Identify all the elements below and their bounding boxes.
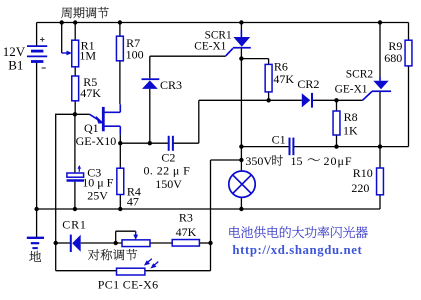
svg-text:GE-X1: GE-X1 [335,83,368,95]
resistor R6 47K [265,64,272,92]
svg-text:GE-X10: GE-X10 [76,134,117,148]
wire bottom loop horizontal [56,270,211,272]
resistor R10 220 [377,168,384,195]
svg-text:10 μ F: 10 μ F [82,176,113,190]
node C3 bottom / ground rail [73,207,77,211]
wire R7 top lead [119,23,121,37]
resistor R4 47 [117,168,124,194]
svg-text:350V: 350V [245,154,272,168]
label symmetry adjust [88,249,137,260]
node battery minus / ground rail [34,207,38,211]
wire battery negative lead [36,62,38,209]
svg-text:SCR2: SCR2 [346,69,374,81]
ground [27,238,44,248]
svg-text:C1: C1 [272,133,286,147]
wire R6 bottom lead [268,92,270,100]
wire CR3 bottom lead [149,89,151,143]
wire corner up to gate row [198,100,200,143]
wire CR3 top lead [149,56,151,78]
svg-text:220: 220 [351,181,369,195]
wire gate row to CR2 [199,99,302,101]
wire R4 top lead [119,143,121,168]
svg-text:20μF: 20μF [324,154,353,168]
svg-text:PC1 CE-X6: PC1 CE-X6 [98,277,159,291]
node R3 right / loop vertical [208,241,212,245]
svg-text:CR1: CR1 [62,217,86,231]
wire lamp node to R3 loop [211,159,242,161]
wire SCR1 cathode lead [240,48,242,58]
wire R4 bottom lead [119,195,121,210]
svg-text:B1: B1 [8,57,23,72]
node lamp bottom / ground rail [239,207,243,211]
wire SCR2 anode lead [379,23,381,78]
label ground [29,251,41,262]
wire ground rail [37,208,380,210]
svg-text:1M: 1M [79,49,96,63]
wire R1 top lead [74,23,76,41]
svg-text:47K: 47K [80,86,101,100]
battery plus sign [40,37,44,41]
node CR1 anode / R2 [114,241,118,245]
label period adjust [61,7,109,18]
node Q1 B1 / R4 / C2 [118,141,122,145]
node R7 top / top rail [118,20,122,24]
resistor R3 47K [172,240,199,247]
node SCR2 cathode / R10 top [378,144,382,148]
svg-text:1K: 1K [343,123,358,137]
wire SCR1 cathode to R6 top [241,58,268,60]
resistor R9 680 [405,40,412,66]
wire R10 top lead [379,147,381,168]
svg-text:47: 47 [127,195,139,209]
node R1 top / top rail [73,20,77,24]
resistor R2 (pot, symmetry adjust) [122,240,150,247]
wire SCR2 cathode lead [379,92,381,147]
wire C3 bottom lead [74,182,76,209]
wire R1 to R5 [74,67,76,76]
wire C1 row right [294,146,409,148]
svg-text:15: 15 [291,154,303,168]
wire Q1 B1 lead to node [119,135,121,144]
wire R2 wiper link [115,231,117,243]
resistor R5 47K [72,76,79,101]
wire SCR1 gate row [150,55,226,57]
node SCR1 anode / top rail [239,20,243,24]
node R8 bottom / C1 row [334,144,338,148]
node R1 wiper / top rail [60,20,64,24]
SCR2 GE-X1 [363,77,392,100]
battery B1 12V [27,46,47,61]
caption line 1 [229,226,367,238]
wire battery positive lead [36,23,38,46]
capacitor C1 350V 15-20uF [290,138,294,156]
wire SCR1 anode lead [240,23,242,31]
wire left loop vertical [55,114,57,271]
wire R5 bottom lead [74,101,76,115]
svg-text:C2: C2 [161,151,175,165]
PC1 light arrows [144,259,158,269]
wire R9 bottom lead (right border) [408,66,410,147]
capacitor C3 10uF 25V [67,165,85,181]
wire R8 top lead [336,100,338,111]
wire R10 bottom lead [379,195,381,209]
resistor photocell PC1 CE-X6 [117,268,145,275]
node R6 bottom / gate row [266,98,270,102]
wire R7 bottom lead to Q1 B2 [119,61,121,104]
svg-text:CE-X1: CE-X1 [194,41,226,53]
wire R9 top lead [408,23,410,41]
node lamp / R3 loop [239,158,243,162]
wire ground stub [36,209,38,237]
node SCR2 anode / top rail [378,20,382,24]
node UJT emitter junction [73,112,77,116]
node CR3 anode / C2 row [148,141,152,145]
wire UJT emitter node horizontal [56,113,90,115]
lamp (flash tube) [229,171,255,197]
wire node to C2 left [120,142,168,144]
svg-text:25V: 25V [87,189,108,203]
resistor R8 1K [333,111,340,135]
node SCR1 cathode / R6 [239,56,243,60]
svg-text:150V: 150V [155,177,182,191]
wire R1 wiper from top rail [61,23,63,54]
svg-text:100: 100 [126,48,144,62]
resistor R1 1M (pot) [72,40,79,67]
svg-text:680: 680 [384,51,402,65]
wire R8 bottom lead [336,135,338,147]
transistor Q1 GE-X10 (UJT) [90,104,121,134]
svg-text:Q1: Q1 [84,121,99,135]
wire C1 row left [241,146,288,148]
capacitor C2 0.22uF 150V [169,136,173,151]
SCR1 CE-X1 [226,30,251,56]
R2 wiper arrow [135,231,137,235]
svg-text:CR2: CR2 [297,77,319,91]
svg-text:R10: R10 [353,166,373,180]
node R4 bottom / ground rail [118,207,122,211]
wire C3 top lead [74,114,76,173]
node CR1 cathode / left loop [54,241,58,245]
wire C2 right to corner [174,142,199,144]
wire SCR1 cathode down to lamp [240,59,242,171]
resistor R7 100 [116,36,123,61]
wire top supply rail [37,22,409,24]
svg-text:47K: 47K [176,225,197,239]
svg-text:http://xd.shangdu.net: http://xd.shangdu.net [232,243,362,257]
R1 wiper arrow [62,52,68,54]
diode CR1 [70,235,81,252]
node R8 top / SCR2 gate [334,98,338,102]
wire CR1 row [56,242,70,244]
svg-text:R3: R3 [179,211,193,225]
diode CR2 [302,93,313,108]
diode CR3 [142,78,160,89]
svg-text:R8: R8 [344,110,358,124]
svg-text:CR3: CR3 [160,78,182,92]
node lamp top / C1 row [239,144,243,148]
svg-text:0. 22 μ F: 0. 22 μ F [144,164,191,178]
battery minus sign [42,67,46,69]
svg-text:47K: 47K [273,72,294,86]
wire lamp bottom lead [240,197,242,209]
wire CR2 cathode to SCR2 gate [313,99,363,101]
